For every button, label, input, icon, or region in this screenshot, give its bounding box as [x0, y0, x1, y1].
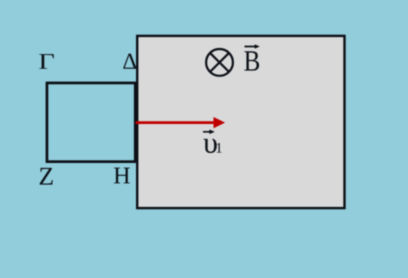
- label upsilon: [203, 139, 216, 153]
- B-field into-page symbol (circle with X): [206, 49, 233, 76]
- label Z: [40, 168, 53, 185]
- label H: [114, 168, 130, 184]
- velocity arrow v1 (red): [136, 117, 226, 128]
- vector arrow over B: [245, 45, 258, 48]
- vector arrow over upsilon: [203, 130, 213, 133]
- label Gamma: [39, 54, 54, 69]
- label Delta: [123, 54, 136, 69]
- label B: [244, 51, 259, 70]
- magnetic field region: [137, 36, 344, 208]
- subscript 1: [217, 143, 222, 153]
- square loop GDHZ: [47, 83, 135, 162]
